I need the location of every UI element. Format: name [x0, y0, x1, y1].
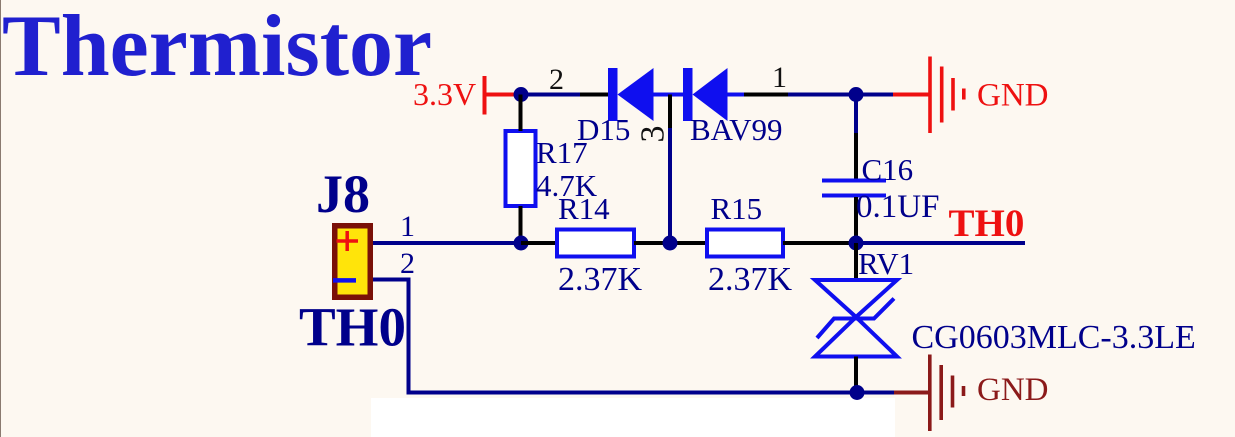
pin of R17 bottom	[519, 206, 523, 243]
resistor R14 body	[557, 230, 634, 257]
power ground GND top bar2	[940, 67, 944, 123]
svg-text:RV1: RV1	[858, 246, 914, 281]
wire node B down to C16	[854, 95, 858, 134]
varistor RV1 strike line	[817, 299, 894, 339]
wire node F to bottom GND navy part	[857, 391, 894, 395]
pin 1 of D15	[744, 93, 788, 97]
power port 3.3V bar	[483, 76, 487, 115]
svg-text:CG0603MLC-3.3LE: CG0603MLC-3.3LE	[912, 319, 1196, 356]
svg-text:1: 1	[772, 61, 787, 94]
node D junction	[663, 236, 678, 251]
pin of RV1 bottom	[854, 357, 858, 393]
wire J8 pin2 elbow	[373, 280, 857, 393]
diode D15 element B triangle	[693, 68, 728, 121]
svg-text:GND: GND	[977, 372, 1049, 408]
power ground GND bottom bar2	[939, 365, 943, 420]
wire pin3 down to node D	[668, 128, 672, 243]
pin of R14 left	[521, 241, 557, 245]
left border edge	[0, 0, 1, 437]
wire between diode halves	[654, 93, 684, 97]
varistor RV1 top triangle	[815, 280, 897, 317]
node A junction (3.3V rail left)	[514, 87, 529, 102]
wire pin1 to node B	[788, 93, 856, 97]
power ground GND top bar4	[962, 89, 966, 100]
diode D15 element A triangle	[618, 68, 654, 121]
wire red into GND symbol	[893, 93, 929, 97]
power ground GND top bar3	[951, 78, 955, 111]
connector J8 body	[335, 226, 371, 298]
resistor R17 body	[506, 131, 536, 206]
svg-text:R15: R15	[711, 191, 763, 226]
svg-text:C16: C16	[862, 152, 914, 187]
svg-text:Thermistor: Thermistor	[2, 0, 432, 95]
pin of R17 top	[519, 95, 523, 132]
wire node A to D15 pin 2	[521, 93, 580, 97]
svg-text:R17: R17	[536, 135, 588, 170]
pin 3 of D15 vertical	[668, 95, 672, 129]
node B junction (top right)	[849, 87, 864, 102]
svg-text:GND: GND	[977, 78, 1049, 114]
svg-text:2: 2	[400, 247, 415, 280]
svg-text:2.37K: 2.37K	[708, 261, 793, 298]
varistor RV1 bottom triangle	[815, 317, 897, 357]
power ground GND bottom bar4	[962, 386, 966, 396]
pin of C16 bottom	[854, 197, 858, 243]
diode internal lead right	[728, 93, 745, 97]
node C junction	[514, 236, 529, 251]
J8 plus mark	[337, 239, 359, 243]
wire TH0 net	[856, 241, 1025, 245]
svg-text:3.3V: 3.3V	[413, 76, 476, 112]
svg-text:0.1UF: 0.1UF	[856, 189, 939, 225]
pin 2 of D15	[580, 93, 608, 97]
resistor R15 body	[707, 230, 783, 257]
svg-text:BAV99: BAV99	[690, 112, 782, 147]
capacitor C16 plate bottom	[822, 194, 886, 198]
pin of RV1 top	[854, 243, 858, 280]
capacitor C16 plate top	[822, 179, 886, 183]
diode D15 element A cathode bar	[608, 68, 618, 121]
pin of R14 right and R15 left	[634, 241, 707, 245]
white margin block bottom	[371, 398, 895, 437]
wire J8 pin1 to node C	[373, 241, 521, 245]
wire maroon into bottom GND	[894, 391, 928, 395]
wire node B to GND	[856, 93, 893, 97]
pin of C16 top	[854, 133, 858, 179]
pin of R15 right	[783, 241, 856, 245]
node E junction (TH0)	[849, 236, 864, 251]
svg-text:J8: J8	[316, 164, 370, 224]
node F junction bottom	[850, 385, 865, 400]
power ground GND bottom bar1	[928, 355, 932, 432]
power ground GND top bar1	[928, 57, 932, 134]
svg-text:R14: R14	[558, 191, 610, 226]
diode D15 element B cathode bar	[683, 68, 693, 121]
wire 3.3V to node A	[485, 93, 522, 97]
svg-text:3: 3	[635, 126, 672, 143]
svg-text:1: 1	[400, 210, 415, 243]
svg-text:2: 2	[549, 63, 564, 96]
svg-text:TH0: TH0	[299, 297, 406, 358]
svg-text:TH0: TH0	[949, 202, 1025, 245]
svg-text:2.37K: 2.37K	[558, 261, 643, 298]
J8 minus mark	[333, 278, 356, 283]
power ground GND bottom bar3	[951, 376, 955, 408]
